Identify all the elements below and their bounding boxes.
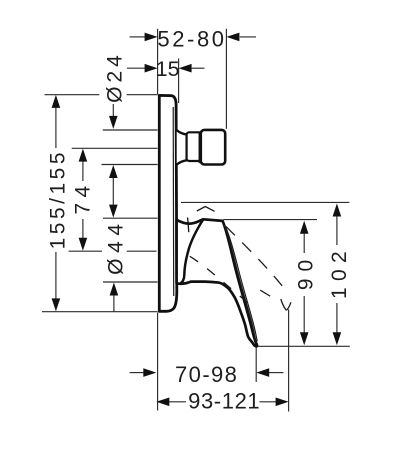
- dashed raised-handle hub chevron: [197, 207, 215, 212]
- svg-text:74: 74: [71, 180, 94, 214]
- svg-text:155/155: 155/155: [47, 149, 70, 249]
- wire: knob right-face extension line: [225, 29, 227, 129]
- dimension 74: [82, 160, 84, 239]
- dimension 15: [127, 67, 205, 69]
- diverter knob cylinder: [201, 130, 225, 165]
- svg-text:70-98: 70-98: [175, 362, 238, 387]
- svg-text:52-80: 52-80: [157, 26, 226, 51]
- dashed raised-handle upper edge: [226, 226, 283, 287]
- wire: ext line handle tip bottom (90/102 lower ref): [254, 345, 350, 347]
- wire: ext line handle top (90 upper ref): [223, 219, 317, 221]
- dashed raised-handle tip beak right: [286, 302, 291, 310]
- svg-text:93-121: 93-121: [188, 388, 260, 413]
- dimension 93-121: [168, 401, 277, 403]
- plate inner face line: [172, 107, 175, 296]
- hub collar tick: [188, 218, 189, 233]
- svg-text:Ø24: Ø24: [104, 51, 127, 103]
- wire: plate front-face extension line (15): [178, 59, 180, 104]
- svg-text:102: 102: [328, 245, 351, 299]
- wire: ext line knob bottom (Ø24 lower): [102, 164, 158, 166]
- diverter knob neck: [177, 130, 187, 164]
- dimension 90: [303, 232, 305, 334]
- dimension 155/155: [55, 107, 57, 299]
- dimension 70-98: [130, 372, 284, 374]
- svg-text:90: 90: [294, 253, 317, 290]
- lever back edge internal line: [180, 220, 203, 284]
- handle (lever) silhouette: [177, 219, 257, 346]
- wire: ext line cartridge bottom (Ø44 lower): [103, 281, 158, 283]
- knob ring/cylinder divider: [198, 131, 200, 163]
- wire: ext line raised-handle tip vertical (93-121 right): [288, 310, 290, 412]
- wire: ext line knob center (74 upper): [72, 147, 158, 149]
- dashed raised-handle mid edge: [256, 288, 278, 301]
- diverter knob ring: [187, 132, 201, 161]
- dimension 102: [336, 215, 338, 334]
- dimension Ø44: [113, 294, 115, 312]
- wire: wall extension line below plate: [157, 313, 159, 411]
- dimension Ø24: [112, 104, 114, 116]
- wire: ext line plate top (155/155 upper ref): [45, 94, 100, 96]
- wire: ext line raised-handle top (102 upper ref): [181, 201, 349, 203]
- lever front edge band line 1: [224, 225, 256, 341]
- wire: ext line knob top (Ø24 upper): [103, 129, 158, 131]
- wire: ext line plate bottom (155/155 lower ref): [42, 311, 158, 313]
- escutcheon plate (side profile): [159, 95, 177, 311]
- wire: ext line handle tip vertical (70-98 right): [255, 346, 257, 382]
- svg-text:15: 15: [156, 57, 180, 81]
- dimension 52-80: [130, 36, 256, 38]
- wire: ext line cartridge center (74 lower): [69, 250, 102, 252]
- lever front edge band line 2 (outer silhouette): [225, 226, 257, 341]
- wire: wall extension line above plate: [157, 29, 159, 95]
- dashed raised-handle lower edge: [190, 256, 254, 307]
- svg-text:Ø44: Ø44: [105, 218, 128, 275]
- wire: ext line cartridge top (Ø44 upper): [103, 217, 158, 219]
- dashed raised-handle tip beak left: [281, 299, 287, 310]
